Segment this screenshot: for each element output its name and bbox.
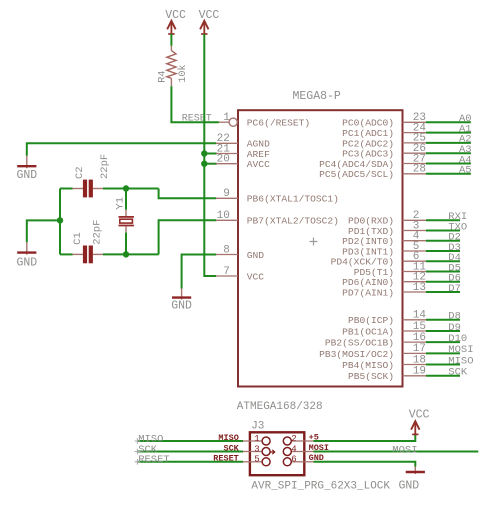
wire XTAL2 node to pin 10 xyxy=(159,220,217,254)
wire net D8 xyxy=(426,319,460,321)
wire AREF tap xyxy=(204,153,217,155)
wire GND row to ground xyxy=(314,462,416,467)
svg-text:VCC: VCC xyxy=(165,9,186,22)
pin 8 GND (left) xyxy=(216,244,265,261)
svg-text:Y1: Y1 xyxy=(114,197,126,210)
svg-text:1: 1 xyxy=(223,112,230,124)
power VCC (J3) xyxy=(409,408,430,434)
wire net A0 xyxy=(426,121,471,123)
junction XTAL1 node xyxy=(123,185,129,191)
pin 15 PB1(OC1A) (right) xyxy=(342,321,426,338)
wire MOSI out xyxy=(314,451,479,453)
wire net SCK xyxy=(426,375,460,377)
svg-text:VCC: VCC xyxy=(247,271,265,282)
wire net MOSI xyxy=(426,352,460,354)
pin 28 PC5(ADC5/SCL) (right) xyxy=(319,164,426,181)
wire net A5 xyxy=(426,173,471,175)
wire net D7 xyxy=(426,291,460,293)
svg-text:10k: 10k xyxy=(177,64,189,82)
svg-text:PB4(MISO): PB4(MISO) xyxy=(342,360,394,371)
svg-text:GND: GND xyxy=(16,256,37,269)
connector J3 body xyxy=(250,432,304,475)
wire left node vertical C2-C1 xyxy=(59,189,61,255)
svg-text:10: 10 xyxy=(217,210,230,222)
svg-text:VCC: VCC xyxy=(409,408,430,421)
wire R4 bottom to RESET pin 1 xyxy=(171,86,219,122)
wire C2 right to XTAL1 node xyxy=(103,188,159,190)
pin 3 SCK (J3 left) xyxy=(223,443,270,455)
svg-text:PC5(ADC5/SCL): PC5(ADC5/SCL) xyxy=(319,169,394,180)
pin 27 PC4(ADC4/SDA) (right) xyxy=(319,153,426,170)
wire left node to GND xyxy=(27,220,60,242)
pin 12 PD6(AIN0) (right) xyxy=(342,272,426,289)
ground GND (pin 8) xyxy=(171,289,192,313)
pin 22 AGND (left) xyxy=(216,133,270,150)
svg-text:D10: D10 xyxy=(448,333,467,345)
wire net D2 xyxy=(426,240,460,242)
wire VCC1 to R4 top xyxy=(170,34,172,46)
pin 19 PB5(SCK) (right) xyxy=(348,366,426,383)
svg-text:PB1(OC1A): PB1(OC1A) xyxy=(342,326,394,337)
wire +5 to VCC xyxy=(314,434,416,441)
power VCC net symbol (left, feeds R4) xyxy=(165,9,186,34)
svg-text:8: 8 xyxy=(223,244,230,256)
wire AVCC tap xyxy=(204,163,217,165)
IC origin cross xyxy=(310,238,318,246)
pin 3 PD1(TXD) (right) xyxy=(348,220,426,237)
svg-text:J3: J3 xyxy=(251,420,264,432)
pin 25 PC2(ADC2) (right) xyxy=(342,133,426,150)
pin 9 PB6(XTAL1/TOSC1) (left) xyxy=(216,188,339,205)
wire net D10 xyxy=(426,341,460,343)
svg-text:D8: D8 xyxy=(448,311,461,323)
ground GND (crystal caps) xyxy=(16,242,37,269)
svg-text:PC6(/RESET): PC6(/RESET) xyxy=(247,118,310,129)
pin 26 PC3(ADC3) (right) xyxy=(342,143,426,160)
svg-text:4: 4 xyxy=(291,444,296,454)
wire XTAL1 node to pin 9 xyxy=(159,189,217,199)
wire-end origin cross xyxy=(135,438,141,444)
pin 20 AVCC (left) xyxy=(216,154,270,171)
svg-text:6: 6 xyxy=(291,455,296,465)
pin 13 PD7(AIN1) (right) xyxy=(342,282,426,299)
pin 6 GND (J3 right) xyxy=(283,453,324,466)
wire MISO to J3 xyxy=(138,440,244,442)
junction at AREF pin 21 xyxy=(201,150,207,156)
wire RESET to J3 xyxy=(138,461,244,463)
svg-text:PD7(AIN1): PD7(AIN1) xyxy=(342,287,394,298)
svg-text:R4: R4 xyxy=(158,71,169,83)
svg-text:9: 9 xyxy=(223,188,230,200)
svg-text:GND: GND xyxy=(16,169,37,182)
wire net D6 xyxy=(426,281,460,283)
svg-text:C2: C2 xyxy=(74,166,86,179)
svg-text:22pF: 22pF xyxy=(91,220,103,245)
ground GND (AGND) xyxy=(16,156,37,182)
capacitor C1 22pF xyxy=(72,220,104,264)
pin 23 PC0(ADC0) (right) xyxy=(342,112,426,129)
pin 16 PB2(SS/OC1B) (right) xyxy=(325,332,426,349)
wire SCK to J3 xyxy=(138,451,244,453)
svg-text:PB2(SS/OC1B): PB2(SS/OC1B) xyxy=(325,338,394,349)
svg-text:AVCC: AVCC xyxy=(247,159,270,170)
pin 6 PD4(XCK/T0) (right) xyxy=(331,251,426,268)
resistor R4 xyxy=(167,46,176,87)
pin 1 PC6(/RESET) (left) xyxy=(219,112,310,129)
svg-text:RESET: RESET xyxy=(138,454,170,466)
svg-text:7: 7 xyxy=(223,266,230,278)
wire GND pin 8 to ground xyxy=(182,255,217,289)
svg-text:AVR_SPI_PRG_62X3_LOCK: AVR_SPI_PRG_62X3_LOCK xyxy=(251,480,390,492)
wire net A3 xyxy=(426,152,471,154)
pin 2 +5 (J3 right) xyxy=(283,432,319,445)
svg-text:14: 14 xyxy=(413,310,427,322)
pin 4 PD2(INT0) (right) xyxy=(342,231,426,248)
svg-text:2: 2 xyxy=(291,434,296,444)
pin 10 PB7(XTAL2/TOSC2) (left) xyxy=(216,210,339,227)
pin 7 VCC (left) xyxy=(216,266,265,283)
wire net D5 xyxy=(426,271,460,273)
wire net A2 xyxy=(426,142,471,144)
pin 5 RESET (J3 left) xyxy=(213,454,270,466)
svg-text:D7: D7 xyxy=(448,283,461,295)
svg-text:ATMEGA168/328: ATMEGA168/328 xyxy=(237,401,323,413)
svg-text:18: 18 xyxy=(413,354,426,366)
pin 24 PC1(ADC1) (right) xyxy=(342,122,426,139)
svg-text:GND: GND xyxy=(171,300,192,313)
capacitor C2 22pF xyxy=(72,154,111,198)
pin 11 PD5(T1) (right) xyxy=(354,261,427,278)
wire VCC2 down to pin 7, with taps xyxy=(204,34,216,276)
wire net TXO xyxy=(426,230,460,232)
wire AGND pin 22 to GND xyxy=(27,143,216,156)
svg-text:20: 20 xyxy=(217,154,230,166)
junction left node to GND xyxy=(57,217,63,223)
pin 17 PB3(MOSI/OC2) (right) xyxy=(319,343,426,360)
svg-text:GND: GND xyxy=(247,250,265,261)
wire C1 left xyxy=(60,253,73,255)
wire C2 left xyxy=(60,188,73,190)
pin 4 MOSI (J3 right) xyxy=(283,443,329,456)
J3 pin-3 direction marker xyxy=(270,450,275,454)
svg-text:MOSI: MOSI xyxy=(392,445,417,457)
junction XTAL2 node xyxy=(123,251,129,257)
IC U1 MEGA8-P body xyxy=(238,110,403,386)
svg-text:PB6(XTAL1/TOSC1): PB6(XTAL1/TOSC1) xyxy=(247,194,339,205)
pin 18 PB4(MISO) (right) xyxy=(342,354,426,371)
wire-end origin cross xyxy=(135,459,141,465)
svg-text:C1: C1 xyxy=(72,232,84,245)
svg-text:3: 3 xyxy=(254,444,259,454)
pin 14 PB0(ICP) (right) xyxy=(348,310,426,327)
svg-text:MEGA8-P: MEGA8-P xyxy=(293,90,341,103)
svg-text:13: 13 xyxy=(413,282,426,294)
pin 1 MISO (J3 left) xyxy=(218,433,270,445)
junction at AVCC pin 20 xyxy=(201,161,207,167)
pin 5 PD3(INT1) (right) xyxy=(342,241,426,258)
svg-text:28: 28 xyxy=(413,164,426,176)
svg-text:GND: GND xyxy=(399,479,420,492)
svg-text:22pF: 22pF xyxy=(99,154,111,179)
svg-text:19: 19 xyxy=(413,366,426,378)
ground GND (J3) xyxy=(399,467,425,493)
wire net A4 xyxy=(426,163,471,165)
svg-text:RESET: RESET xyxy=(182,114,212,125)
wire net D3 xyxy=(426,250,460,252)
svg-text:A5: A5 xyxy=(459,165,472,177)
pin 2 PD0(RXD) (right) xyxy=(348,210,426,227)
wire net D9 xyxy=(426,330,460,332)
wire net A1 xyxy=(426,132,471,134)
svg-text:SCK: SCK xyxy=(448,367,468,379)
crystal Y1 xyxy=(119,189,134,255)
wire-end origin cross xyxy=(135,449,141,455)
wire net RXI xyxy=(426,219,460,221)
wire net MISO xyxy=(426,364,460,366)
pin 21 AREF (left) xyxy=(216,143,270,160)
svg-text:VCC: VCC xyxy=(199,9,220,22)
power VCC net symbol (right, feeds AREF/AVCC/VCC pin7) xyxy=(199,9,220,34)
svg-text:1: 1 xyxy=(254,434,259,444)
wire C1 right to XTAL2 node xyxy=(103,253,159,255)
svg-text:PB0(ICP): PB0(ICP) xyxy=(348,315,394,326)
svg-text:5: 5 xyxy=(254,455,259,465)
svg-text:PB7(XTAL2/TOSC2): PB7(XTAL2/TOSC2) xyxy=(247,216,339,227)
svg-text:16: 16 xyxy=(413,332,426,344)
wire net D4 xyxy=(426,260,460,262)
svg-text:PB5(SCK): PB5(SCK) xyxy=(348,371,394,382)
svg-text:MISO: MISO xyxy=(448,355,473,367)
svg-text:PB3(MOSI/OC2): PB3(MOSI/OC2) xyxy=(319,349,394,360)
